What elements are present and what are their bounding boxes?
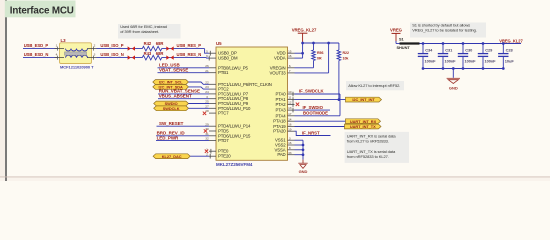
svg-text:26: 26 bbox=[205, 64, 209, 68]
resistor R22 10k pull-up bbox=[337, 43, 349, 100]
net label USB_ISO_P bbox=[100, 43, 123, 48]
svg-text:C28: C28 bbox=[506, 47, 514, 52]
svg-text:10k: 10k bbox=[343, 56, 349, 60]
note: S1 shorting note bbox=[410, 23, 486, 38]
resistor R42 68R bbox=[142, 41, 163, 51]
capacitor C29 100nF bbox=[478, 42, 496, 70]
svg-text:USB_ESD_N: USB_ESD_N bbox=[24, 52, 49, 57]
svg-text:VDDA: VDDA bbox=[274, 56, 286, 61]
svg-text:7: 7 bbox=[289, 69, 291, 73]
net label BRD_REV_ID + wire bbox=[156, 131, 209, 136]
svg-text:U5: U5 bbox=[216, 41, 222, 46]
svg-text:PTA3: PTA3 bbox=[276, 108, 287, 113]
svg-text:R56: R56 bbox=[317, 51, 323, 55]
wire VSS pins to ground bbox=[295, 140, 305, 159]
svg-text:VREG: VREG bbox=[390, 28, 403, 33]
svg-text:C34: C34 bbox=[425, 47, 433, 52]
wire KL27_DAC bbox=[190, 155, 209, 157]
wire USB_ISO_P bbox=[97, 48, 143, 50]
svg-text:21: 21 bbox=[205, 69, 209, 73]
svg-text:IF_NRST: IF_NRST bbox=[302, 130, 320, 135]
net label USB_RES_N bbox=[177, 52, 202, 57]
port I2C_INT_SDA bbox=[153, 84, 189, 89]
svg-text:Interface MCU: Interface MCU bbox=[10, 6, 74, 17]
net label BOOTMODE + wire bbox=[295, 110, 341, 116]
note: UART direction note bbox=[345, 132, 409, 163]
svg-text:3: 3 bbox=[94, 53, 96, 57]
svg-text:VREG_KL27 to be isolated for t: VREG_KL27 to be isolated for testing. bbox=[412, 28, 477, 33]
wire VOUT33 to rail bbox=[295, 43, 329, 73]
no-connect PTD5 bbox=[204, 129, 207, 132]
svg-text:VREG_KL27: VREG_KL27 bbox=[292, 27, 317, 32]
net label LED_USB + wire bbox=[158, 63, 210, 68]
svg-text:R22: R22 bbox=[343, 51, 349, 55]
capacitor C28 10uF bbox=[498, 42, 514, 70]
wire USB_ISO_N bbox=[97, 57, 143, 59]
diff-pair marker on USB_RES_N bbox=[166, 55, 173, 59]
note: resistor value note bbox=[118, 24, 181, 39]
net label IF_SWDIO + wire bbox=[295, 105, 331, 110]
wire USB_RES_P to USB0_DP bbox=[205, 49, 209, 54]
capacitor C30 100nF bbox=[458, 42, 476, 70]
svg-text:14: 14 bbox=[288, 117, 292, 121]
svg-text:MCF1211020900 T: MCF1211020900 T bbox=[60, 64, 94, 69]
wire UART_INT_RX bbox=[295, 120, 346, 122]
net label VBAT_SENSE + wire bbox=[158, 68, 210, 73]
net label IF_NRST + wire bbox=[295, 130, 331, 135]
svg-text:IF_SWDCLK: IF_SWDCLK bbox=[299, 89, 325, 94]
resistor R56 0R bbox=[312, 43, 324, 68]
svg-text:PTB1: PTB1 bbox=[218, 70, 229, 75]
svg-text:0R: 0R bbox=[317, 56, 322, 60]
svg-text:27: 27 bbox=[205, 104, 209, 108]
diff-pair marker on USB_RES_P bbox=[166, 46, 173, 50]
net label VBUS_ABSENT + wire bbox=[158, 94, 209, 99]
svg-text:100nF: 100nF bbox=[485, 58, 497, 63]
svg-text:25: 25 bbox=[205, 100, 209, 104]
svg-text:PTA0: PTA0 bbox=[276, 91, 287, 96]
svg-text:6: 6 bbox=[289, 64, 291, 68]
svg-text:68R: 68R bbox=[156, 51, 164, 56]
net label SW_RESET + wire bbox=[157, 121, 210, 126]
svg-text:PTC7: PTC7 bbox=[218, 111, 229, 116]
resistor R43 68R bbox=[142, 51, 163, 60]
svg-text:PTA20: PTA20 bbox=[273, 129, 286, 134]
svg-text:PTD7: PTD7 bbox=[218, 138, 229, 143]
svg-text:10uF: 10uF bbox=[505, 58, 515, 63]
svg-text:17: 17 bbox=[288, 112, 292, 116]
svg-text:PAD: PAD bbox=[277, 152, 285, 157]
svg-text:VBUS_ABSENT: VBUS_ABSENT bbox=[159, 94, 192, 99]
svg-text:16: 16 bbox=[288, 123, 292, 127]
jumper S1 SHUNT bbox=[397, 36, 420, 50]
svg-text:KL27_DAC: KL27_DAC bbox=[162, 154, 182, 159]
svg-text:GND: GND bbox=[299, 169, 308, 174]
svg-text:8: 8 bbox=[289, 146, 291, 150]
wire VREG to S1 bbox=[396, 41, 400, 44]
svg-text:VBAT_SENSE: VBAT_SENSE bbox=[159, 68, 188, 73]
svg-text:12: 12 bbox=[288, 101, 292, 105]
svg-text:PTE20: PTE20 bbox=[218, 154, 231, 159]
svg-text:68R: 68R bbox=[156, 41, 164, 46]
wire VDD/VDDA to rail bbox=[295, 43, 304, 58]
MCU U5 MKL27Z256VFM4 bbox=[216, 41, 288, 167]
port I2C_INT_INT bbox=[346, 97, 382, 102]
svg-text:16: 16 bbox=[288, 54, 292, 58]
svg-text:I2C_INT_INT: I2C_INT_INT bbox=[352, 97, 375, 102]
wire SWDCLK bbox=[189, 107, 210, 109]
port SWDCLK bbox=[154, 106, 189, 111]
port KL27_DAC bbox=[153, 154, 190, 159]
power port VREG bbox=[390, 28, 403, 42]
svg-text:of 39R from datasheet.: of 39R from datasheet. bbox=[120, 29, 159, 34]
svg-text:23: 23 bbox=[205, 85, 209, 89]
svg-text:C31: C31 bbox=[445, 47, 453, 52]
port SWDIO bbox=[154, 101, 189, 106]
svg-text:Allow KL27 to interrupt nRF52.: Allow KL27 to interrupt nRF52. bbox=[348, 83, 400, 88]
port UART_INT_RX bbox=[346, 119, 381, 124]
diff-pair marker on USB_ISO_P bbox=[128, 46, 135, 50]
svg-text:3: 3 bbox=[289, 136, 291, 140]
net label RUN_VBAT_SENSE + wire bbox=[158, 89, 209, 94]
svg-text:22: 22 bbox=[205, 80, 209, 84]
svg-text:16: 16 bbox=[288, 141, 292, 145]
wire VREG_KL27 rail bbox=[303, 42, 339, 44]
svg-text:24: 24 bbox=[205, 90, 209, 94]
svg-text:6: 6 bbox=[206, 54, 208, 58]
port I2C_INT_SCL bbox=[153, 80, 189, 85]
net label USB_ESD_N bbox=[24, 52, 49, 57]
net label USB_ESD_P bbox=[24, 43, 49, 48]
power port VREG_KL27 (left) bbox=[292, 27, 317, 42]
sheet title: Interface MCU bbox=[5, 1, 76, 18]
ground GND (cap bank) bbox=[447, 78, 460, 90]
svg-text:29: 29 bbox=[205, 122, 209, 126]
svg-text:C29: C29 bbox=[485, 47, 493, 52]
svg-text:10: 10 bbox=[288, 90, 292, 94]
svg-text:100nF: 100nF bbox=[445, 58, 457, 63]
svg-text:SHUNT: SHUNT bbox=[397, 45, 411, 50]
wire USB_RES_N bbox=[162, 57, 207, 59]
svg-text:100nF: 100nF bbox=[425, 58, 437, 63]
U5 right pins bbox=[270, 49, 295, 157]
net label USB_RES_P bbox=[177, 43, 202, 48]
svg-text:11: 11 bbox=[288, 96, 291, 100]
junction dots rail bbox=[301, 42, 330, 45]
svg-text:from KL27 to nRF52833.: from KL27 to nRF52833. bbox=[347, 139, 389, 144]
no-connect PTA2 bbox=[296, 103, 299, 106]
svg-text:USB_ISO_N: USB_ISO_N bbox=[100, 52, 123, 57]
net label IF_SWDCLK + wire bbox=[295, 89, 341, 94]
svg-text:USB0_DM: USB0_DM bbox=[218, 56, 238, 61]
wire USB_ESD_N bbox=[23, 57, 58, 59]
wire I2C_INT_SDA bbox=[189, 87, 210, 89]
wire VREG_KL27 cap rail bbox=[420, 43, 522, 45]
net label USB_ISO_N bbox=[100, 52, 123, 57]
pin ticks PTE0/PTE20 bbox=[209, 149, 212, 159]
no-connect PTC7 bbox=[203, 112, 206, 115]
ground GND (U5) bbox=[298, 160, 307, 174]
svg-text:USB_RES_P: USB_RES_P bbox=[177, 43, 202, 48]
capacitor C31 100nF bbox=[438, 42, 456, 70]
svg-text:5: 5 bbox=[206, 49, 208, 53]
svg-text:100nF: 100nF bbox=[465, 58, 477, 63]
no-connect PTE0 bbox=[205, 150, 208, 153]
svg-text:15: 15 bbox=[288, 49, 292, 53]
svg-text:IF_SWDIO: IF_SWDIO bbox=[303, 105, 324, 110]
note: KL27 interrupt note bbox=[346, 81, 404, 90]
capacitor C34 100nF bbox=[418, 42, 436, 70]
svg-text:LED_PWR: LED_PWR bbox=[157, 135, 179, 140]
svg-text:19: 19 bbox=[288, 127, 292, 131]
svg-text:MKL27Z256VFM4: MKL27Z256VFM4 bbox=[216, 162, 253, 167]
common-mode choke L3 MCF1211020900 T bbox=[55, 38, 97, 69]
svg-text:33: 33 bbox=[288, 151, 292, 155]
wire UART_INT_TX bbox=[295, 126, 345, 128]
svg-text:2: 2 bbox=[94, 44, 96, 48]
pin tick marks USB pins bbox=[209, 51, 210, 61]
svg-text:USB_RES_N: USB_RES_N bbox=[177, 52, 202, 57]
svg-text:UART_INT_RX: UART_INT_RX bbox=[350, 119, 377, 124]
wire USB_RES_N to USB0_DM bbox=[207, 57, 210, 60]
wire USB_RES_P bbox=[162, 48, 205, 50]
wire cap ground rail bbox=[423, 67, 503, 78]
svg-text:BOOTMODE: BOOTMODE bbox=[303, 110, 328, 115]
wire I2C_INT_INT bbox=[295, 98, 346, 101]
wire VREGIN bbox=[295, 67, 314, 69]
svg-text:USB_ISO_P: USB_ISO_P bbox=[100, 43, 123, 48]
diff-pair marker on USB_ISO_N bbox=[128, 55, 135, 59]
svg-text:USB_ESD_P: USB_ESD_P bbox=[24, 43, 49, 48]
port UART_INT_TX bbox=[345, 124, 382, 129]
net label LED_PWR + wire bbox=[156, 135, 209, 140]
svg-text:32: 32 bbox=[205, 137, 209, 141]
svg-text:C30: C30 bbox=[465, 47, 472, 52]
svg-text:SW_RESET: SW_RESET bbox=[159, 121, 184, 126]
wire I2C_INT_SCL bbox=[189, 82, 210, 84]
svg-text:R42: R42 bbox=[144, 41, 152, 46]
svg-text:from nRF52833 to KL27.: from nRF52833 to KL27. bbox=[347, 154, 389, 159]
svg-text:PTA2: PTA2 bbox=[276, 102, 287, 107]
wire USB_ESD_P bbox=[23, 48, 58, 50]
svg-text:3: 3 bbox=[206, 95, 208, 99]
svg-text:VOUT33: VOUT33 bbox=[270, 70, 287, 75]
U5 left pins bbox=[205, 49, 272, 158]
svg-text:PTA18: PTA18 bbox=[273, 119, 286, 124]
net label VREG_KL27 (right) bbox=[499, 38, 523, 43]
svg-text:R43: R43 bbox=[144, 51, 152, 56]
svg-text:GND: GND bbox=[449, 86, 458, 91]
svg-text:UART_INT_TX: UART_INT_TX bbox=[350, 124, 376, 129]
pin tick marks right side bbox=[292, 92, 294, 113]
wire SWDIO bbox=[189, 103, 210, 105]
svg-text:SWDCLK: SWDCLK bbox=[163, 106, 180, 111]
svg-text:PTA4: PTA4 bbox=[276, 113, 287, 118]
wire PTA0 to PTA4 (BOOTMODE tie) bbox=[339, 94, 341, 116]
svg-text:13: 13 bbox=[288, 106, 292, 110]
